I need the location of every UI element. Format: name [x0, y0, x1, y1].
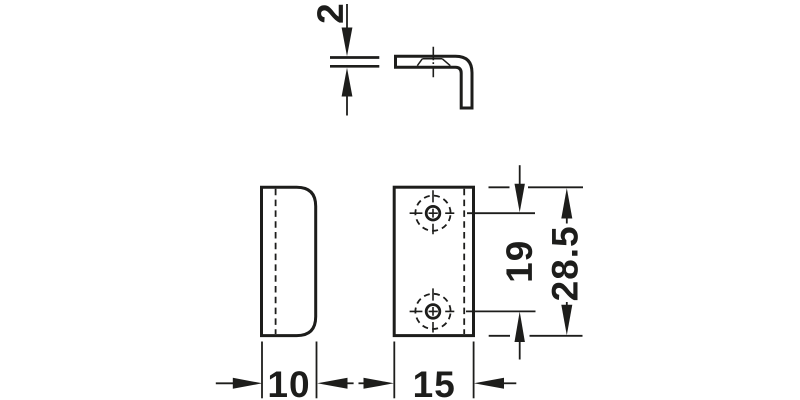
hole H2 countersink dashed circle: [415, 294, 450, 329]
dimension line 15 right tail: [504, 382, 517, 384]
hole H1 countersink dashed circle: [415, 196, 450, 231]
arrowhead 19 down: [515, 184, 525, 213]
dimension text 10: [270, 371, 308, 397]
dimension line middle left tail: [347, 382, 354, 384]
arrowhead 28.5 down: [561, 305, 572, 336]
side view hidden line: [275, 189, 277, 334]
arrowhead 10-15 left-pointing: [317, 378, 347, 389]
dimension line 28.5 lower segment: [566, 302, 568, 306]
extension line 15 right: [473, 342, 475, 399]
arrowhead 28.5 up: [561, 188, 572, 219]
countersink left slant: [417, 59, 422, 66]
arrowhead 2 up: [342, 68, 353, 97]
dimension line 19 lower tail: [519, 341, 521, 360]
hole H2 centerline horizontal: [410, 310, 455, 312]
arrowhead 10-15 right-pointing: [364, 378, 394, 389]
extension line bottom edge: [489, 335, 583, 337]
arrowhead 19 up: [515, 312, 525, 343]
hole H2 centerline vertical: [432, 288, 434, 332]
dimension text 15: [415, 372, 454, 398]
extension line 10 left: [261, 342, 263, 399]
extension line 15 left: [393, 342, 395, 399]
front view hidden bend line: [463, 189, 465, 334]
dimension line 2 upper tail: [346, 4, 348, 29]
dimension line middle right tail: [359, 382, 365, 384]
hole H1 centerline vertical: [432, 190, 434, 234]
dimension line 28.5 upper segment: [566, 218, 568, 224]
sheet edge upper line (2 mm thickness): [330, 56, 379, 59]
hole H1 pilot circle: [426, 206, 440, 220]
sheet edge lower line (2 mm thickness): [330, 65, 379, 68]
arrowhead 10 right-pointing: [233, 378, 262, 389]
arrowhead 2 down: [342, 28, 353, 57]
dimension text 19: [506, 242, 532, 280]
dimension line 19 upper tail: [519, 165, 521, 185]
side view outline: [262, 187, 316, 335]
L-profile outline (top view of bracket): [396, 56, 473, 108]
hole H2 pilot circle: [426, 305, 440, 319]
dimension line 2 lower tail: [346, 96, 348, 116]
extension line 10 right: [316, 342, 318, 399]
countersink top edge: [422, 58, 442, 60]
extension line hole H1: [467, 212, 535, 214]
dimension text 2: [317, 5, 343, 23]
countersink right slant: [442, 59, 450, 66]
hole H1 center cross: [429, 209, 438, 218]
hole centerline (top view): [432, 47, 434, 77]
front view outline: [394, 187, 473, 335]
dimension line 10 left tail: [216, 382, 234, 384]
arrowhead 15 left-pointing: [474, 378, 504, 389]
dimension text 28.5: [552, 227, 578, 300]
extension line top edge: [489, 186, 584, 188]
hole H2 center cross: [429, 307, 438, 316]
extension line hole H2: [466, 310, 536, 312]
hole H1 centerline horizontal: [410, 212, 455, 214]
